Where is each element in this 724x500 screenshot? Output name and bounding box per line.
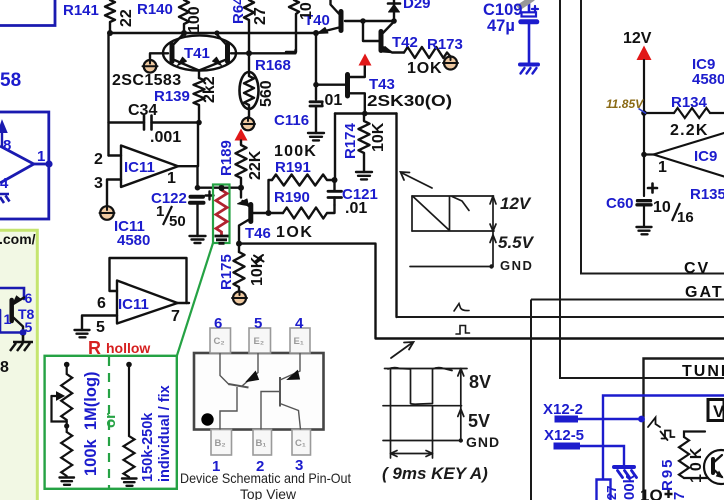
svg-text:100: 100 <box>186 6 203 33</box>
blue rotated designators <box>218 0 688 500</box>
svg-text:V: V <box>713 402 724 421</box>
svg-text:2.2K: 2.2K <box>670 122 709 139</box>
wire pin2 <box>109 154 122 156</box>
wire pin5 <box>82 316 117 331</box>
junction dot X12-2 blue <box>638 416 645 423</box>
svg-text:R135: R135 <box>690 186 724 203</box>
waveform labels 12V 5.5V GND <box>498 194 535 273</box>
svg-text:GND: GND <box>466 434 500 450</box>
svg-text:.com/: .com/ <box>0 231 36 247</box>
ground C116 <box>308 133 324 140</box>
svg-text:27: 27 <box>604 486 619 500</box>
svg-text:or: or <box>102 413 119 428</box>
op-amp U IC11a triangle <box>121 146 178 188</box>
glyph pulse on lower bus <box>456 326 470 335</box>
right NPN <box>279 377 281 407</box>
transistor T41 oval <box>163 35 236 70</box>
svg-text:6: 6 <box>97 295 106 312</box>
black pin numbers <box>94 151 667 336</box>
svg-text:10: 10 <box>298 2 315 20</box>
svg-text:R175: R175 <box>218 254 235 290</box>
TUN box <box>644 359 724 500</box>
resistor R190 <box>283 205 335 219</box>
svg-text:4580: 4580 <box>117 232 150 249</box>
svg-text:C116: C116 <box>274 112 309 129</box>
resistor R95 <box>679 437 689 478</box>
power arrow red R189 <box>235 129 248 141</box>
waveform diagram KEY gate 8V/5V <box>383 368 467 458</box>
svg-text:T41: T41 <box>184 45 210 62</box>
test point TP R173 <box>444 57 457 70</box>
svg-text:hollow: hollow <box>106 340 150 356</box>
ground R174 <box>356 172 372 179</box>
T8 emitter node dot <box>20 329 27 336</box>
T8 labels <box>4 290 35 335</box>
photo artifact gray wedge <box>518 0 533 8</box>
black values horizontal <box>112 30 709 241</box>
blue op-amp triangle <box>0 146 34 183</box>
svg-text:C₂: C₂ <box>214 336 225 347</box>
T46 collector arrow <box>238 199 249 206</box>
svg-text:R173: R173 <box>427 36 463 53</box>
svg-text:T42: T42 <box>392 34 418 51</box>
svg-text:Device Schematic and Pin-Out: Device Schematic and Pin-Out <box>180 470 351 486</box>
wire output node to R189 node <box>198 186 242 188</box>
test point TP T41 base <box>143 60 158 73</box>
svg-text:50: 50 <box>169 213 186 230</box>
svg-text:C34: C34 <box>128 102 157 119</box>
blue node dot <box>45 160 52 167</box>
T40 emitter arrow <box>317 28 328 34</box>
svg-text:.01: .01 <box>320 92 342 109</box>
black values rotated <box>118 2 705 483</box>
svg-text:1OK: 1OK <box>276 224 313 241</box>
svg-text:R191: R191 <box>275 159 311 176</box>
svg-text:8: 8 <box>0 359 9 376</box>
wire R134 feed <box>644 112 674 114</box>
T41 emitter arrows <box>178 57 187 65</box>
blue ground slashes <box>0 194 10 203</box>
wire IC11b feedback loop <box>110 258 187 303</box>
svg-text:GATE: GATE <box>685 284 724 301</box>
power arrow red 12V <box>637 46 652 61</box>
pinout arrows <box>247 372 259 382</box>
test point TP R168 <box>242 118 255 131</box>
blue arrow symbol <box>0 121 7 133</box>
ground X12-5 blue <box>614 465 634 469</box>
svg-text:X12-5: X12-5 <box>544 427 584 444</box>
svg-text:D29: D29 <box>403 0 431 12</box>
svg-text:R189: R189 <box>218 140 235 176</box>
mark x below T46 <box>254 255 264 262</box>
svg-text:R168: R168 <box>255 57 291 74</box>
svg-text:100K: 100K <box>274 143 317 160</box>
svg-text:C₁: C₁ <box>295 438 306 449</box>
resistor R134 <box>674 108 724 118</box>
svg-text:47µ: 47µ <box>487 17 515 35</box>
svg-text:T46: T46 <box>245 225 271 242</box>
svg-text:150k-250k: 150k-250k <box>140 412 156 482</box>
resistor R139 <box>194 78 205 123</box>
wire main top rail <box>110 32 316 34</box>
hand arrow upper <box>401 172 433 188</box>
waveform diagram sawtooth 12V/5.5V <box>410 196 496 269</box>
transistor T8 blue section <box>0 288 24 333</box>
svg-text:2SK30(O): 2SK30(O) <box>367 93 452 110</box>
ground pin5 <box>75 330 90 337</box>
X12 connector section blue <box>554 396 724 500</box>
resistor R174 <box>359 114 370 173</box>
ground hollow resistor <box>215 236 229 243</box>
svg-text:R140: R140 <box>137 1 173 18</box>
svg-text:12V: 12V <box>623 30 652 47</box>
svg-text:.01: .01 <box>345 200 367 217</box>
svg-text:E₂: E₂ <box>254 336 265 347</box>
pinout pin numbers blue <box>212 315 304 475</box>
left page blue box corner top <box>0 0 55 26</box>
bus saw line <box>397 316 724 318</box>
svg-text:7: 7 <box>671 492 688 500</box>
wire X12-2 <box>578 418 642 420</box>
resistor R64 <box>244 0 254 53</box>
wire T40 emitter node down to T43 gate <box>315 33 317 85</box>
svg-text:1: 1 <box>156 203 164 220</box>
wire node T43 source rail <box>335 112 397 114</box>
svg-text:1: 1 <box>4 311 12 327</box>
resistor R173 <box>404 47 450 58</box>
resistor 150k-250k <box>124 364 135 477</box>
bus GATE <box>531 300 724 500</box>
wire R175 node long run right <box>239 244 724 339</box>
resistor R189 <box>236 141 247 188</box>
svg-text:E₁: E₁ <box>294 336 304 347</box>
pinout top pins <box>210 328 311 455</box>
svg-text:10K: 10K <box>688 445 705 483</box>
resistor R191 <box>272 175 335 186</box>
svg-text:R64: R64 <box>230 0 247 24</box>
svg-text:10K: 10K <box>249 256 266 286</box>
pinout package body <box>194 353 324 430</box>
bus CV <box>397 0 724 500</box>
transistor T40 <box>339 12 344 31</box>
left PNP <box>220 353 230 385</box>
wire long vertical from T43 node <box>395 114 397 318</box>
svg-text:5V: 5V <box>468 411 490 431</box>
junction dot node A <box>107 30 113 36</box>
bus vertical to TUNE <box>560 0 724 378</box>
svg-text:8V: 8V <box>469 372 491 392</box>
watermark panel pale green <box>0 229 37 500</box>
svg-text:12V: 12V <box>500 194 532 213</box>
blue box pin labels <box>0 137 45 192</box>
VCO box V <box>708 400 724 422</box>
C60 plus <box>648 184 657 193</box>
left page blue op-amp box <box>0 112 49 219</box>
svg-text:5: 5 <box>25 319 33 335</box>
C122 plus <box>206 192 214 200</box>
svg-text:100k 1M(log): 100k 1M(log) <box>82 371 100 476</box>
wire T42 base jog <box>363 21 381 41</box>
svg-text:560: 560 <box>258 80 275 107</box>
ground pot <box>60 478 75 485</box>
green callout small box <box>177 185 230 357</box>
glyph saw/pulse at X12 <box>648 418 675 441</box>
svg-text:TUNE: TUNE <box>682 363 724 380</box>
capacitor C121 <box>333 180 335 190</box>
test point TP R175 <box>233 292 246 305</box>
capacitor C116 <box>315 85 317 100</box>
wire D29 node <box>363 20 394 22</box>
svg-text:1: 1 <box>658 159 667 176</box>
label 1/50 <box>156 203 186 230</box>
transistor T42 <box>379 32 384 51</box>
svg-text:IC11: IC11 <box>118 296 149 313</box>
transistor T46 <box>248 205 253 222</box>
svg-text:4: 4 <box>0 175 9 192</box>
svg-text:2: 2 <box>94 151 103 168</box>
svg-text:7: 7 <box>171 308 180 325</box>
svg-text:6: 6 <box>25 290 33 306</box>
pinout bottom pins <box>211 430 232 456</box>
svg-text:R174: R174 <box>342 122 359 159</box>
svg-text:1: 1 <box>167 170 176 187</box>
pinout pin names <box>214 336 306 449</box>
svg-text:1OK: 1OK <box>407 60 442 77</box>
resistor 10K top <box>286 0 299 52</box>
resistor R140 <box>179 0 189 33</box>
svg-text:10K: 10K <box>370 122 387 152</box>
svg-text:22: 22 <box>118 9 135 27</box>
resistor R175 <box>234 252 245 292</box>
svg-text:8: 8 <box>3 137 11 154</box>
R95 circuit block <box>679 432 724 485</box>
capacitor C109 blue <box>520 0 538 74</box>
svg-text:X12-2: X12-2 <box>543 401 583 418</box>
svg-text:T43: T43 <box>369 76 395 93</box>
transistor T41 left half <box>150 53 168 60</box>
hollow resistor dark red <box>216 189 227 236</box>
svg-text:( 9ms KEY A): ( 9ms KEY A) <box>382 464 488 483</box>
ground C60 <box>637 227 652 234</box>
pinout pin1 dot <box>201 413 213 425</box>
svg-text:22K: 22K <box>247 150 264 180</box>
wire 12V rail <box>643 60 645 196</box>
transistor circle <box>704 450 724 484</box>
svg-text:27: 27 <box>252 7 269 25</box>
svg-text:R134: R134 <box>671 94 708 111</box>
X12-2 stub <box>555 416 579 423</box>
green big box <box>45 356 177 489</box>
bus blue L <box>603 396 724 479</box>
resistor R141 <box>105 0 115 33</box>
bus labels <box>682 260 724 380</box>
capacitor C122 <box>190 197 204 203</box>
svg-text:R141: R141 <box>63 2 99 19</box>
svg-text:4580: 4580 <box>692 71 724 88</box>
svg-text:3: 3 <box>94 175 103 192</box>
T8 collector arrow black <box>13 296 22 305</box>
wires R95 to transistor <box>684 432 705 438</box>
svg-text:R95: R95 <box>659 457 676 491</box>
svg-text:CV: CV <box>684 260 710 277</box>
capacitor C34 <box>109 121 200 123</box>
wire node R168 top <box>249 50 296 53</box>
svg-text:.001: .001 <box>150 129 181 146</box>
test point TP pin3 <box>100 206 114 220</box>
svg-text:00k: 00k <box>621 474 638 500</box>
svg-text:C60: C60 <box>606 195 634 212</box>
T42 emitter arrow <box>382 47 393 53</box>
svg-text:Top View: Top View <box>240 486 297 500</box>
svg-text:2SC1583: 2SC1583 <box>112 72 182 89</box>
hand arrow lower <box>391 342 414 358</box>
svg-text:2k2: 2k2 <box>201 76 218 103</box>
transistor T43 JFET <box>345 75 350 97</box>
svg-text:58: 58 <box>0 70 21 91</box>
pot wiper <box>52 396 67 422</box>
wire R141 branch down to C34 node and pin2 <box>107 33 109 156</box>
svg-text:5: 5 <box>254 315 262 332</box>
wire C121 riser <box>334 114 336 181</box>
wire IC11a output <box>178 123 198 188</box>
resistor 100k <box>61 432 72 476</box>
wire IC11b output stub <box>187 302 190 304</box>
svg-text:1: 1 <box>37 148 45 165</box>
transistor T41 right half <box>225 45 230 62</box>
op-amp U IC9 triangle <box>654 133 724 177</box>
svg-text:R190: R190 <box>274 189 310 206</box>
svg-text:6: 6 <box>214 315 222 332</box>
label 10/16 C60 <box>653 199 694 226</box>
ground C122 <box>190 236 206 243</box>
potentiometer 1M log <box>52 362 137 486</box>
pointer tick blue <box>639 109 647 114</box>
12V supply section <box>637 46 724 235</box>
X12-5 stub <box>554 443 581 450</box>
green dashed divider <box>108 357 110 488</box>
ground 150k <box>122 479 137 486</box>
connector step bottom <box>597 480 611 500</box>
svg-text:4: 4 <box>295 315 304 332</box>
KEY waveform labels <box>382 372 500 483</box>
diode D29 <box>393 0 395 21</box>
svg-text:IC11: IC11 <box>124 159 155 176</box>
wire R191 left riser <box>269 180 273 213</box>
op-amp U IC11b triangle <box>117 281 178 324</box>
pinout transistor internals <box>220 353 301 430</box>
capacitor C60 <box>637 201 651 205</box>
wire T46 emitter to R175 <box>238 244 240 252</box>
wire X12-5 <box>580 446 624 465</box>
green callout lines <box>177 243 213 356</box>
svg-text:individual / fix: individual / fix <box>157 385 173 482</box>
svg-text:16: 16 <box>677 209 694 226</box>
resistor R168 in oval <box>244 55 254 117</box>
svg-text:R139: R139 <box>154 88 190 105</box>
svg-text:B₁: B₁ <box>256 438 267 449</box>
svg-text:B₂: B₂ <box>215 438 226 449</box>
svg-text:5.5V: 5.5V <box>498 233 535 252</box>
glyph envelope on saw bus <box>454 304 470 335</box>
ground T8 <box>10 335 33 351</box>
wire pin3 <box>107 180 121 207</box>
C109 blue label <box>483 1 522 35</box>
svg-text:5: 5 <box>96 319 105 336</box>
svg-text:IC9: IC9 <box>694 148 717 165</box>
svg-text:10: 10 <box>653 199 671 216</box>
svg-text:GND: GND <box>500 258 533 273</box>
